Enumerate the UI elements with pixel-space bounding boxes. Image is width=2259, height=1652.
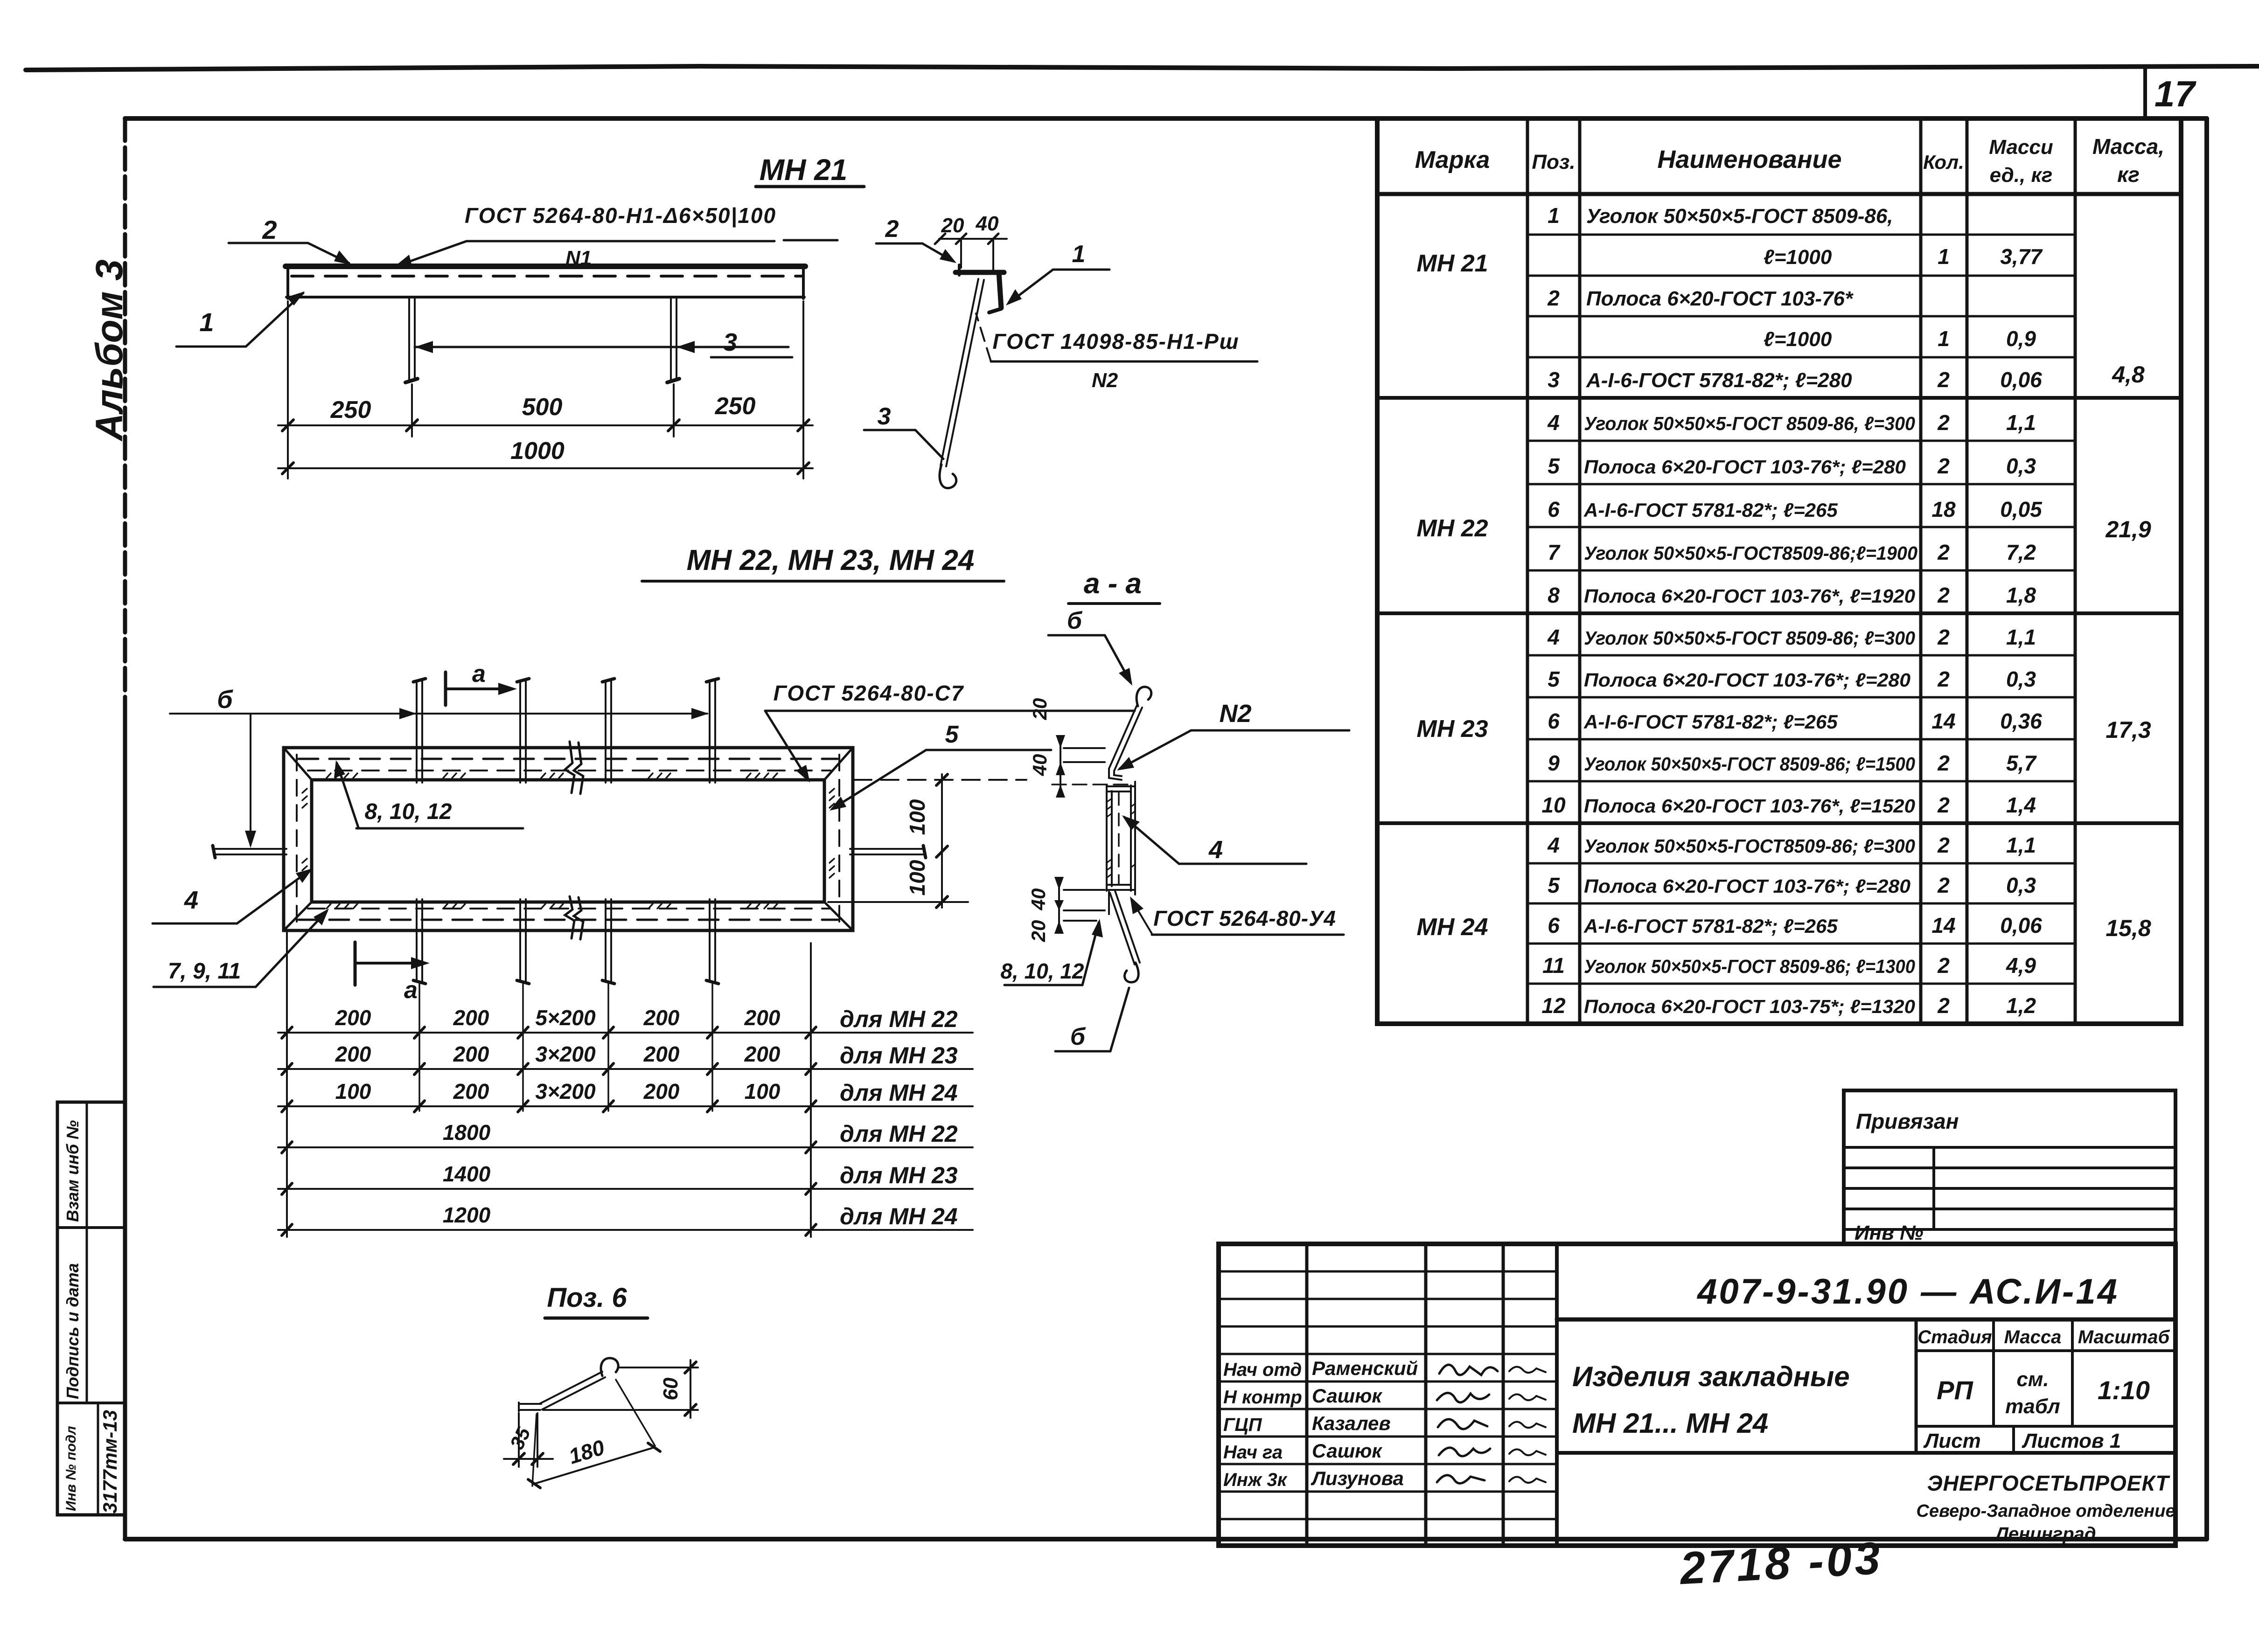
- svg-text:ℓ=1000: ℓ=1000: [1764, 328, 1832, 351]
- svg-text:МН 22, МН 23, МН 24: МН 22, МН 23, МН 24: [687, 544, 975, 576]
- plan dashed strips side bands: [296, 755, 298, 925]
- svg-text:для МН 23: для МН 23: [840, 1162, 958, 1188]
- svg-text:1,2: 1,2: [2006, 993, 2036, 1018]
- top rod 1: [416, 680, 418, 783]
- svg-text:для МН 24: для МН 24: [840, 1080, 958, 1106]
- detail bracket leg: [999, 272, 1001, 308]
- title block left rows: [1219, 1270, 1557, 1273]
- plan dashed strips top band: [299, 758, 837, 760]
- svg-text:2: 2: [1937, 833, 1950, 857]
- svg-text:кг: кг: [2117, 162, 2140, 187]
- svg-text:20: 20: [1027, 920, 1049, 943]
- svg-text:МН 24: МН 24: [1416, 914, 1488, 941]
- right side rod: [850, 848, 925, 850]
- svg-text:Уголок 50×50×5-ГОСТ8509-86; ℓ=: Уголок 50×50×5-ГОСТ8509-86; ℓ=300: [1584, 835, 1915, 857]
- svg-text:7: 7: [1548, 540, 1561, 564]
- svg-text:А-I-6-ГОСТ 5781-82*; ℓ=265: А-I-6-ГОСТ 5781-82*; ℓ=265: [1583, 711, 1838, 733]
- svg-text:5: 5: [1548, 454, 1560, 478]
- sheet number box: [2143, 68, 2147, 118]
- svg-text:0,3: 0,3: [2006, 667, 2036, 691]
- svg-text:7,2: 7,2: [2006, 540, 2036, 564]
- svg-text:2: 2: [1937, 953, 1950, 978]
- svg-text:Нач отд: Нач отд: [1223, 1360, 1302, 1380]
- svg-text:1,1: 1,1: [2006, 625, 2036, 649]
- margin stamp box: [57, 1102, 125, 1515]
- svg-text:Масси: Масси: [1989, 136, 2053, 159]
- svg-text:200: 200: [744, 1006, 781, 1030]
- privyazan box: [1844, 1090, 2175, 1244]
- svg-text:ГОСТ 5264-80-У4: ГОСТ 5264-80-У4: [1153, 906, 1336, 930]
- svg-text:1800: 1800: [443, 1120, 491, 1145]
- svg-text:табл: табл: [2005, 1395, 2060, 1418]
- plan frame inner: [312, 780, 824, 902]
- svg-text:3×200: 3×200: [535, 1079, 596, 1104]
- org cell: [1557, 1451, 2175, 1455]
- anchor rod left MN21: [408, 299, 410, 381]
- svg-text:2: 2: [1937, 993, 1950, 1018]
- svg-text:Инв № подл: Инв № подл: [63, 1426, 79, 1511]
- svg-text:Полоса 6×20-ГОСТ 103-76*; ℓ=28: Полоса 6×20-ГОСТ 103-76*; ℓ=280: [1584, 669, 1910, 691]
- svg-text:Казалев: Казалев: [1312, 1412, 1391, 1434]
- svg-text:Привязан: Привязан: [1856, 1109, 1959, 1133]
- break mark top band: [565, 742, 574, 793]
- table row lines MN23: [1527, 654, 2075, 657]
- svg-text:Уголок 50×50×5-ГОСТ 8509-86; ℓ: Уголок 50×50×5-ГОСТ 8509-86; ℓ=1500: [1584, 753, 1915, 775]
- svg-text:А-I-6-ГОСТ 5781-82*; ℓ=265: А-I-6-ГОСТ 5781-82*; ℓ=265: [1583, 915, 1838, 937]
- list row: [1916, 1425, 2175, 1428]
- bottom rod 1: [416, 899, 418, 981]
- svg-text:40: 40: [1029, 754, 1051, 777]
- svg-text:2: 2: [1937, 667, 1950, 691]
- svg-text:2: 2: [262, 215, 277, 244]
- svg-text:Ленинград: Ленинград: [1994, 1524, 2096, 1544]
- svg-text:200: 200: [453, 1079, 489, 1104]
- svg-text:100: 100: [905, 860, 929, 895]
- svg-text:0,06: 0,06: [2000, 368, 2042, 392]
- svg-text:Северо-Западное отделение: Северо-Западное отделение: [1916, 1501, 2175, 1521]
- svg-text:4: 4: [1547, 410, 1560, 435]
- svg-text:100: 100: [905, 799, 929, 835]
- anchor rod right MN21: [670, 299, 672, 381]
- svg-text:11: 11: [1542, 953, 1565, 978]
- svg-text:14: 14: [1931, 913, 1955, 937]
- svg-text:Поз.: Поз.: [1532, 151, 1575, 174]
- svg-text:8: 8: [1548, 583, 1560, 607]
- svg-text:А-I-6-ГОСТ 5781-82*; ℓ=280: А-I-6-ГОСТ 5781-82*; ℓ=280: [1586, 369, 1852, 392]
- svg-text:для МН 23: для МН 23: [840, 1042, 958, 1069]
- svg-text:2718 -03: 2718 -03: [1678, 1532, 1884, 1594]
- svg-text:Полоса 6×20-ГОСТ 103-75*; ℓ=13: Полоса 6×20-ГОСТ 103-75*; ℓ=1320: [1584, 996, 1915, 1017]
- svg-text:0,36: 0,36: [2000, 709, 2042, 733]
- svg-text:5: 5: [945, 721, 959, 748]
- svg-text:ГОСТ 5264-80-Н1-Δ6×50|100: ГОСТ 5264-80-Н1-Δ6×50|100: [465, 203, 776, 228]
- date scribbles: [1509, 1367, 1546, 1373]
- weld ticks top band: [327, 773, 357, 778]
- svg-text:2: 2: [1937, 873, 1950, 897]
- svg-text:МН 21: МН 21: [760, 153, 848, 187]
- doc number cell: [1557, 1318, 2175, 1322]
- bottom rod 4: [709, 899, 711, 981]
- svg-text:2: 2: [1937, 368, 1950, 392]
- svg-text:ГЦП: ГЦП: [1223, 1415, 1262, 1435]
- svg-text:20: 20: [941, 214, 964, 237]
- dim 180 poz6: [532, 1414, 537, 1486]
- svg-text:Кол.: Кол.: [1923, 151, 1964, 173]
- svg-text:1200: 1200: [443, 1203, 491, 1227]
- section mark a bottom: [354, 942, 357, 985]
- svg-text:15,8: 15,8: [2106, 915, 2151, 941]
- svg-text:5,7: 5,7: [2006, 751, 2037, 775]
- svg-text:0,06: 0,06: [2000, 913, 2042, 937]
- svg-text:Альбом 3: Альбом 3: [88, 259, 131, 442]
- svg-text:Уголок 50×50×5-ГОСТ 8509-86; ℓ: Уголок 50×50×5-ГОСТ 8509-86; ℓ=1300: [1584, 956, 1915, 977]
- beam plate MN21: [286, 264, 805, 269]
- channel weld ticks: [1107, 798, 1112, 878]
- svg-text:РП: РП: [1937, 1375, 1973, 1405]
- section mark a top: [444, 672, 447, 705]
- scan edge line top: [26, 66, 2259, 70]
- svg-text:2: 2: [1547, 286, 1560, 310]
- svg-text:2: 2: [1937, 410, 1950, 435]
- svg-text:20: 20: [1029, 698, 1051, 721]
- svg-text:200: 200: [643, 1042, 680, 1066]
- top hook jog to channel: [1109, 769, 1122, 780]
- drawing frame: [125, 116, 2207, 121]
- table row lines MN24: [1527, 862, 2075, 865]
- svg-text:Сашюк: Сашюк: [1312, 1440, 1382, 1462]
- svg-text:0,3: 0,3: [2006, 873, 2036, 897]
- svg-text:Взам инб №: Взам инб №: [63, 1120, 82, 1222]
- svg-text:40: 40: [976, 212, 999, 235]
- section dim top 20 40: [1064, 747, 1105, 749]
- svg-text:2: 2: [1937, 751, 1950, 775]
- svg-text:Листов 1: Листов 1: [2022, 1430, 2121, 1452]
- svg-text:407-9-31.90 — АС.И-14: 407-9-31.90 — АС.И-14: [1696, 1272, 2119, 1312]
- svg-text:200: 200: [744, 1042, 781, 1066]
- svg-text:250: 250: [330, 396, 371, 423]
- top rod 3: [605, 680, 607, 783]
- svg-text:60: 60: [659, 1377, 682, 1400]
- svg-text:Нач га: Нач га: [1223, 1442, 1283, 1463]
- svg-text:1: 1: [1938, 244, 1950, 269]
- table section lines: [1377, 396, 2181, 400]
- svg-text:17,3: 17,3: [2106, 717, 2151, 743]
- svg-text:0,3: 0,3: [2006, 454, 2036, 478]
- svg-text:Стадия: Стадия: [1917, 1327, 1992, 1347]
- bottom rod 3: [605, 899, 607, 981]
- svg-text:б: б: [1067, 607, 1083, 634]
- weld ticks bottom band: [327, 904, 357, 909]
- svg-text:9: 9: [1548, 751, 1560, 775]
- svg-text:Уголок 50×50×5-ГОСТ8509-86;ℓ=1: Уголок 50×50×5-ГОСТ8509-86;ℓ=1900: [1584, 542, 1917, 564]
- svg-text:1: 1: [1072, 241, 1086, 268]
- dim row 3: [278, 1105, 973, 1107]
- svg-text:б: б: [1070, 1023, 1086, 1050]
- left side rod: [214, 848, 286, 850]
- svg-text:12: 12: [1541, 993, 1566, 1018]
- top hook section: [1136, 687, 1151, 706]
- svg-text:а: а: [404, 977, 418, 1004]
- svg-text:Масштаб: Масштаб: [2078, 1327, 2170, 1347]
- table row lines MN22: [1527, 440, 2075, 442]
- svg-text:для МН 24: для МН 24: [840, 1203, 958, 1229]
- dim 60 poz6: [618, 1367, 698, 1368]
- svg-text:100: 100: [335, 1079, 371, 1104]
- svg-text:ед., кг: ед., кг: [1990, 164, 2053, 187]
- title block left columns: [1305, 1244, 1309, 1546]
- svg-text:200: 200: [335, 1006, 371, 1030]
- svg-text:МН 21... МН 24: МН 21... МН 24: [1572, 1408, 1768, 1439]
- svg-text:3: 3: [878, 403, 891, 430]
- svg-text:Полоса 6×20-ГОСТ 103-76*, ℓ=15: Полоса 6×20-ГОСТ 103-76*, ℓ=1520: [1584, 795, 1915, 817]
- title block outer: [1219, 1244, 2175, 1546]
- svg-text:4: 4: [184, 886, 198, 914]
- svg-text:ГОСТ 14098-85-Н1-Рш: ГОСТ 14098-85-Н1-Рш: [992, 329, 1239, 354]
- extension lines to dim rows: [286, 933, 288, 1237]
- svg-text:35: 35: [506, 1423, 535, 1453]
- svg-text:200: 200: [453, 1042, 489, 1066]
- svg-text:5: 5: [1548, 873, 1560, 897]
- svg-text:4: 4: [1208, 836, 1223, 864]
- svg-text:Лист: Лист: [1923, 1430, 1981, 1452]
- svg-text:Марка: Марка: [1415, 146, 1490, 174]
- dim row 2: [278, 1068, 973, 1070]
- bottom rod 2: [519, 899, 521, 981]
- dim row 1: [278, 1032, 973, 1034]
- svg-text:1,1: 1,1: [2006, 833, 2036, 857]
- top rod 4: [709, 680, 711, 783]
- svg-text:2: 2: [1937, 454, 1950, 478]
- detail bracket seat: [955, 270, 1004, 275]
- svg-text:Инв №: Инв №: [1855, 1222, 1923, 1244]
- channel section: [1106, 785, 1108, 891]
- svg-text:21,9: 21,9: [2105, 516, 2151, 542]
- svg-text:для МН 22: для МН 22: [840, 1006, 958, 1032]
- dim row 1400: [278, 1188, 973, 1190]
- detail anchor rod diagonal: [941, 279, 978, 465]
- svg-text:1,4: 1,4: [2006, 793, 2036, 817]
- svg-text:МН 22: МН 22: [1416, 515, 1488, 542]
- svg-text:4,8: 4,8: [2112, 361, 2145, 388]
- section dim bottom 40 20: [1064, 889, 1105, 891]
- stadia columns: [1915, 1319, 1918, 1453]
- svg-text:6: 6: [1548, 709, 1560, 733]
- svg-text:8, 10, 12: 8, 10, 12: [1000, 959, 1084, 983]
- break mark bottom band: [565, 896, 574, 938]
- svg-text:14: 14: [1931, 709, 1955, 733]
- svg-text:Сашюк: Сашюк: [1312, 1385, 1382, 1407]
- svg-text:Раменский: Раменский: [1312, 1357, 1418, 1379]
- svg-text:200: 200: [643, 1079, 680, 1104]
- svg-text:МН 23: МН 23: [1416, 715, 1488, 743]
- detail rod hook bottom: [940, 465, 956, 488]
- svg-text:6: 6: [1548, 497, 1560, 521]
- svg-text:N1: N1: [565, 247, 592, 270]
- bottom hook section: [1110, 893, 1135, 965]
- svg-text:6: 6: [1548, 913, 1560, 937]
- svg-text:3×200: 3×200: [535, 1042, 596, 1066]
- svg-text:3,77: 3,77: [2000, 244, 2043, 269]
- svg-text:Лизунова: Лизунова: [1311, 1467, 1404, 1489]
- svg-text:ℓ=1000: ℓ=1000: [1764, 246, 1832, 269]
- svg-text:200: 200: [643, 1006, 680, 1030]
- svg-text:ЭНЕРГОСЕТЬПРОЕКТ: ЭНЕРГОСЕТЬПРОЕКТ: [1927, 1471, 2171, 1495]
- svg-text:3: 3: [1548, 368, 1560, 392]
- svg-text:2: 2: [1937, 583, 1950, 607]
- svg-text:1:10: 1:10: [2098, 1375, 2150, 1405]
- svg-text:4: 4: [1547, 625, 1560, 649]
- svg-text:10: 10: [1541, 793, 1566, 817]
- svg-text:4,9: 4,9: [2006, 953, 2036, 978]
- svg-text:Инж 3к: Инж 3к: [1223, 1470, 1288, 1490]
- svg-text:ГОСТ 5264-80-С7: ГОСТ 5264-80-С7: [774, 681, 964, 705]
- svg-text:см.: см.: [2016, 1368, 2049, 1391]
- table row lines MN21: [1527, 234, 2075, 236]
- svg-text:Поз. 6: Поз. 6: [547, 1283, 627, 1313]
- svg-text:а: а: [472, 660, 486, 687]
- svg-text:для МН 22: для МН 22: [840, 1121, 958, 1147]
- svg-text:5: 5: [1548, 667, 1560, 691]
- dim row 1800: [278, 1146, 973, 1148]
- dim line 250 500 250: [278, 424, 813, 426]
- svg-text:100: 100: [745, 1079, 781, 1104]
- signatures scribbles: [1439, 1365, 1498, 1375]
- materials table borders: [1377, 118, 2181, 1024]
- dim 100 100 right: [854, 779, 1026, 781]
- svg-text:N2: N2: [1092, 369, 1118, 392]
- svg-text:3: 3: [723, 328, 737, 356]
- svg-text:2: 2: [1937, 625, 1950, 649]
- svg-text:0,9: 0,9: [2006, 326, 2036, 351]
- dim 35 poz6: [518, 1413, 520, 1467]
- svg-text:1,8: 1,8: [2006, 583, 2036, 607]
- svg-text:40: 40: [1027, 888, 1049, 911]
- svg-text:250: 250: [715, 393, 756, 420]
- svg-text:1: 1: [1548, 203, 1560, 228]
- svg-text:1000: 1000: [510, 437, 565, 465]
- dim row 1200: [278, 1229, 973, 1231]
- svg-text:1400: 1400: [443, 1162, 491, 1186]
- channel hidden dashes: [1118, 793, 1120, 884]
- svg-text:Н контр: Н контр: [1223, 1387, 1302, 1408]
- svg-text:Полоса 6×20-ГОСТ 103-76*; ℓ=2: Полоса 6×20-ГОСТ 103-76*; ℓ=280: [1584, 456, 1906, 478]
- plan frame outer: [284, 748, 853, 930]
- svg-text:1,1: 1,1: [2006, 410, 2036, 435]
- svg-text:4: 4: [1547, 833, 1560, 857]
- svg-text:Уголок 50×50×5-ГОСТ 8509-86; ℓ: Уголок 50×50×5-ГОСТ 8509-86; ℓ=300: [1584, 627, 1915, 649]
- hook poz6 shape: [519, 1403, 541, 1405]
- svg-text:500: 500: [522, 394, 563, 421]
- svg-text:Наименование: Наименование: [1657, 146, 1841, 174]
- svg-text:1: 1: [199, 307, 214, 337]
- detail dim 20 40: [939, 238, 1007, 240]
- svg-text:Полоса 6×20-ГОСТ 103-76*; ℓ=2: Полоса 6×20-ГОСТ 103-76*; ℓ=280: [1584, 875, 1910, 897]
- svg-text:МН 21: МН 21: [1416, 250, 1488, 277]
- svg-text:2: 2: [885, 215, 899, 243]
- svg-text:0,05: 0,05: [2000, 497, 2043, 521]
- hook poz6 curl: [601, 1358, 618, 1376]
- svg-text:Масса,: Масса,: [2092, 134, 2164, 159]
- svg-text:Масса: Масса: [2004, 1327, 2062, 1347]
- bottom hook jog: [1108, 892, 1110, 914]
- svg-text:8, 10, 12: 8, 10, 12: [365, 799, 452, 824]
- svg-text:5×200: 5×200: [535, 1006, 596, 1030]
- svg-text:1: 1: [1938, 326, 1950, 351]
- svg-text:200: 200: [453, 1006, 489, 1030]
- svg-text:Уголок 50×50×5-ГОСТ 8509-86, ℓ: Уголок 50×50×5-ГОСТ 8509-86, ℓ=300: [1584, 413, 1915, 434]
- hidden strip dashed: [292, 275, 802, 278]
- top rod 2: [519, 680, 521, 783]
- svg-text:А-I-6-ГОСТ 5781-82*; ℓ=2: А-I-6-ГОСТ 5781-82*; ℓ=265: [1583, 499, 1838, 521]
- svg-text:200: 200: [335, 1042, 371, 1066]
- svg-text:3177тм-13: 3177тм-13: [99, 1410, 121, 1513]
- weld ticks side bands: [302, 789, 307, 808]
- svg-text:б: б: [217, 686, 233, 714]
- svg-text:7, 9, 11: 7, 9, 11: [168, 959, 241, 984]
- plan mitre corners: [284, 748, 312, 780]
- svg-text:Полоса 6×20-ГОСТ 103-76*, ℓ=19: Полоса 6×20-ГОСТ 103-76*, ℓ=1920: [1584, 585, 1915, 607]
- svg-text:Уголок 50×50×5-ГОСТ 8509-86,: Уголок 50×50×5-ГОСТ 8509-86,: [1586, 205, 1893, 228]
- svg-text:N2: N2: [1219, 700, 1251, 728]
- svg-text:18: 18: [1931, 497, 1956, 521]
- svg-text:Подпись и дата: Подпись и дата: [63, 1263, 82, 1399]
- svg-text:2: 2: [1937, 793, 1950, 817]
- dim line 1000: [278, 467, 813, 469]
- svg-text:17: 17: [2154, 73, 2196, 114]
- svg-text:Полоса 6×20-ГОСТ 103-76*: Полоса 6×20-ГОСТ 103-76*: [1586, 287, 1854, 310]
- svg-text:Изделия закладные: Изделия закладные: [1572, 1361, 1850, 1392]
- svg-text:2: 2: [1937, 540, 1950, 564]
- plan dashed strips bottom band: [299, 919, 837, 921]
- leader 3 MN21: [415, 346, 788, 348]
- svg-text:а - а: а - а: [1084, 568, 1142, 600]
